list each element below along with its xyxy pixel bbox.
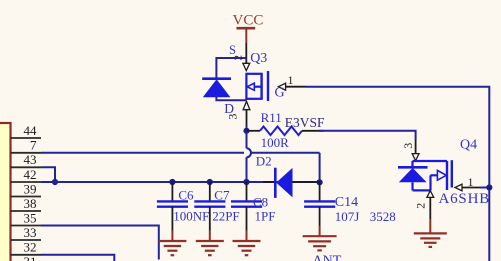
svg-text:D2: D2 <box>256 153 272 168</box>
wire gate Q3 to right edge and down <box>306 87 489 261</box>
pin 42 <box>11 167 42 182</box>
capacitor C6 <box>157 182 209 231</box>
pin 7 <box>11 138 42 153</box>
svg-text:VCC: VCC <box>233 12 264 28</box>
ground under C14 <box>303 226 337 250</box>
svg-text:C8: C8 <box>253 195 268 210</box>
pin S (pin 2) line <box>245 43 247 64</box>
diode D2 <box>256 153 320 198</box>
pin 44 <box>11 123 42 138</box>
pin 43 <box>11 152 42 167</box>
symbol body <box>246 73 261 75</box>
svg-text:1PF: 1PF <box>255 209 276 224</box>
svg-text:7: 7 <box>30 138 37 153</box>
pin 31 (cut off at bottom) <box>24 254 37 261</box>
node C6 <box>169 179 175 185</box>
gate bar <box>451 160 453 187</box>
wire R11 to Q4 pin3 <box>319 131 416 140</box>
pin D line <box>246 110 248 125</box>
svg-text:39: 39 <box>24 181 37 196</box>
svg-text:S: S <box>229 43 236 57</box>
body arrow (points left) <box>247 83 254 90</box>
wire pin 32 down to bottom <box>41 255 114 261</box>
body diode triangle <box>399 168 427 182</box>
pin 38 <box>11 196 42 211</box>
channel arrow (points right) <box>437 170 446 180</box>
pin 39 <box>11 181 42 196</box>
node junction R11/drain <box>243 128 249 134</box>
wire pin 7 to node (with gap at hop) <box>41 152 244 154</box>
pin 35 <box>11 210 42 225</box>
svg-text:100R: 100R <box>261 135 290 150</box>
svg-text:ANT: ANT <box>313 254 342 261</box>
pin 32 <box>11 240 42 255</box>
svg-text:42: 42 <box>24 167 37 182</box>
transistor Q3 (P-MOSFET) <box>224 43 306 125</box>
node C8/drain <box>243 179 249 185</box>
pin G (pin 1) arrow <box>278 83 285 90</box>
node C14/pin7 <box>317 179 323 185</box>
svg-text:A6SHB: A6SHB <box>439 191 491 207</box>
svg-text:R11: R11 <box>261 110 282 125</box>
body diode bar <box>398 166 428 169</box>
wire drain column down with hop over pin7 wire <box>246 131 248 148</box>
capacitor C7 <box>194 182 239 231</box>
svg-text:31: 31 <box>24 254 37 261</box>
svg-text:38: 38 <box>24 196 37 211</box>
body diode of Q3 <box>202 58 246 100</box>
pin 1 arrow <box>455 184 462 191</box>
svg-text:1: 1 <box>288 73 294 87</box>
pin G line <box>286 86 306 88</box>
svg-text:3528: 3528 <box>370 209 396 224</box>
pin 3 line <box>415 140 417 154</box>
wire rail pins 42/43 to C14 node <box>41 181 320 183</box>
ground under Q4 <box>414 219 447 247</box>
wire pin 43 step down <box>41 167 55 182</box>
wire pin 35 down to bottom <box>41 226 159 260</box>
channel bar <box>446 161 448 190</box>
diode triangle <box>203 79 231 97</box>
svg-text:C14: C14 <box>335 195 358 210</box>
svg-text:22PF: 22PF <box>212 209 239 224</box>
connector/IC body U? (yellow box at left edge) <box>0 123 11 261</box>
capacitor C14 <box>304 182 396 226</box>
svg-text:G: G <box>275 85 285 100</box>
power VCC <box>233 12 264 43</box>
svg-text:44: 44 <box>24 123 38 138</box>
pin 33 <box>11 225 42 240</box>
svg-text:3: 3 <box>226 114 240 120</box>
cathode bar <box>202 77 231 80</box>
svg-text:Q3: Q3 <box>250 51 267 66</box>
wire Q4 pin1 to vertical <box>480 187 489 189</box>
svg-text:3: 3 <box>401 143 415 149</box>
pin D (pin 3) arrow <box>243 101 250 109</box>
wire hop arc <box>247 148 252 157</box>
svg-text:100NF: 100NF <box>173 209 209 224</box>
resistor R11 <box>247 110 324 150</box>
svg-text:43: 43 <box>24 152 37 167</box>
svg-text:Q4: Q4 <box>460 138 477 153</box>
ground under C8 <box>233 231 261 256</box>
node pin1/vertical <box>486 184 492 190</box>
ground under C6 <box>158 231 186 256</box>
pin S arrow <box>243 63 250 70</box>
svg-text:C6: C6 <box>178 187 194 202</box>
capacitor C8 <box>231 182 275 231</box>
svg-text:E3VSF: E3VSF <box>285 115 325 130</box>
symbol <box>413 160 448 162</box>
transistor Q4 (N-MOSFET A6SHB) <box>398 138 490 220</box>
pin 2 line <box>429 197 431 219</box>
svg-text:107J: 107J <box>335 209 360 224</box>
wire from diode to D <box>216 97 246 100</box>
svg-text:1: 1 <box>468 175 474 189</box>
svg-text:35: 35 <box>24 210 37 225</box>
wire drain Q3 down to node <box>246 125 248 131</box>
pin 2 arrow <box>427 191 434 198</box>
node pins 42/43 <box>52 179 58 185</box>
pin 3 arrow <box>412 154 419 161</box>
pin 1 line <box>462 187 480 189</box>
ground under C7 <box>196 231 224 256</box>
svg-text:33: 33 <box>24 225 37 240</box>
svg-text:2: 2 <box>414 203 428 209</box>
wire from S to diode <box>216 58 246 78</box>
svg-text:32: 32 <box>24 240 37 255</box>
node C7 <box>207 179 213 185</box>
svg-text:C7: C7 <box>214 187 230 202</box>
